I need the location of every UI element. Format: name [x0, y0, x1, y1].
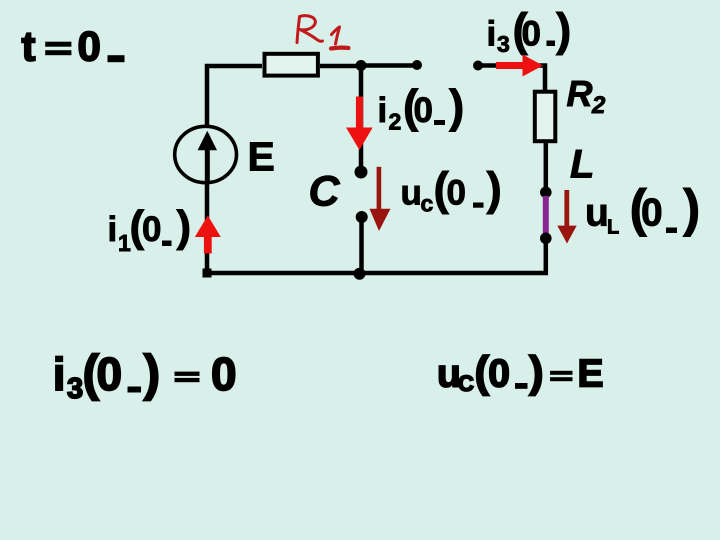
- current source arrow (black, up): [198, 131, 217, 181]
- wire top-right corner down to R2: [527, 66, 545, 91]
- svg-text:t: t: [22, 23, 36, 70]
- capacitor C bottom plate dot: [356, 211, 368, 223]
- svg-text:): ): [683, 180, 700, 238]
- arrow uL (dark red, down): [557, 190, 576, 244]
- wire inductor to bottom-right corner: [205, 238, 546, 273]
- svg-text:0: 0: [142, 210, 161, 249]
- arrow i2 (red, down): [346, 97, 373, 151]
- svg-text:): ): [449, 80, 464, 132]
- label uC(0-): [401, 163, 502, 217]
- wire R1 to node A: [320, 64, 361, 69]
- svg-text:0: 0: [97, 348, 123, 400]
- svg-text:): ): [556, 4, 571, 56]
- formula uC(0-)=E: [437, 348, 604, 397]
- open end dot right side: [473, 61, 483, 71]
- bottom junction node dot: [354, 268, 366, 280]
- label i3(0-) top: [487, 4, 572, 58]
- label uL(0-): [585, 180, 700, 239]
- resistor R2: [535, 92, 556, 142]
- label R2: [567, 73, 607, 119]
- svg-text:2: 2: [591, 92, 606, 119]
- svg-text:0: 0: [211, 348, 237, 400]
- wire top-left from source to R1: [207, 66, 262, 127]
- resistor R1: [265, 54, 318, 76]
- svg-text:0: 0: [488, 353, 510, 396]
- svg-text:0: 0: [414, 91, 433, 130]
- wire source to bottom-left corner: [205, 182, 210, 273]
- svg-text:i: i: [108, 210, 118, 249]
- open end dot: [412, 60, 422, 70]
- svg-text:i: i: [487, 15, 497, 54]
- svg-text:i: i: [53, 348, 66, 400]
- svg-text:0: 0: [78, 23, 101, 70]
- current source E circle: [175, 126, 237, 182]
- svg-text:c: c: [421, 191, 434, 217]
- node A junction dot: [356, 60, 367, 71]
- svg-text:): ): [177, 202, 192, 251]
- svg-text:): ): [487, 163, 502, 215]
- wire center branch upper: [359, 66, 364, 167]
- svg-text:): ): [144, 345, 161, 401]
- svg-text:C: C: [309, 168, 341, 216]
- svg-text:i: i: [378, 91, 388, 130]
- label t=0-: [22, 23, 125, 70]
- inductor L (purple segment): [543, 196, 549, 234]
- svg-text:2: 2: [389, 109, 402, 135]
- svg-text:E: E: [248, 134, 275, 180]
- capacitor C top plate dot: [355, 166, 368, 179]
- wire R2 to inductor node: [544, 143, 549, 192]
- svg-text:E: E: [578, 353, 604, 396]
- label i1(0-): [108, 202, 192, 256]
- inductor bottom node dot: [540, 233, 552, 245]
- wire center branch lower: [359, 217, 364, 273]
- bottom-left corner joint: [203, 269, 212, 278]
- svg-text:(: (: [475, 348, 490, 397]
- svg-text:): ): [529, 348, 544, 397]
- svg-text:3: 3: [67, 373, 83, 405]
- svg-text:L: L: [607, 217, 619, 239]
- svg-text:0: 0: [641, 192, 663, 235]
- svg-text:3: 3: [497, 31, 510, 57]
- label i2(0-): [378, 80, 465, 135]
- formula i3(0-)=0: [53, 345, 237, 405]
- svg-text:C: C: [458, 371, 474, 396]
- wire from right open end: [478, 63, 505, 68]
- svg-text:u: u: [401, 174, 422, 213]
- svg-text:0: 0: [447, 174, 466, 213]
- svg-text:L: L: [570, 143, 594, 187]
- svg-text:R: R: [567, 73, 593, 114]
- label R1 (handwritten red): [297, 16, 349, 49]
- arrow i1 (red, up): [195, 216, 221, 254]
- svg-text:0: 0: [522, 15, 541, 54]
- inductor top node dot: [540, 187, 552, 199]
- wire node A to open end: [361, 63, 417, 68]
- arrow i3 (red, right): [496, 55, 543, 77]
- svg-text:u: u: [585, 192, 609, 235]
- arrow uC (dark red, down): [370, 167, 391, 231]
